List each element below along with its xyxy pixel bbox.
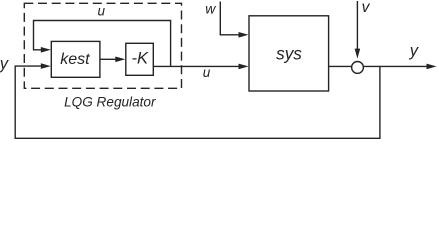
wire kest to -K	[100, 58, 118, 60]
summing junction	[352, 62, 364, 74]
svg-text:y: y	[409, 42, 420, 60]
wire -K to sys	[153, 65, 240, 67]
block kest	[51, 41, 100, 77]
svg-text:sys: sys	[276, 44, 302, 64]
arrowhead into -K	[115, 57, 125, 63]
svg-text:LQG Regulator: LQG Regulator	[64, 94, 156, 109]
svg-text:kest: kest	[60, 51, 90, 68]
wire output y	[364, 65, 428, 67]
arrowhead u into kest	[41, 47, 51, 53]
wire sys to sum	[329, 65, 352, 67]
wire u loop top	[34, 21, 171, 67]
arrowhead output y	[427, 64, 437, 70]
arrowhead w into sys	[239, 32, 249, 38]
block -K	[126, 43, 154, 75]
svg-text:u: u	[97, 4, 105, 19]
svg-text:u: u	[203, 65, 211, 80]
wire v input	[356, 1, 358, 50]
block sys	[249, 16, 329, 91]
wire w input	[220, 2, 240, 35]
arrowhead y into kest	[41, 63, 51, 69]
svg-text:w: w	[205, 1, 216, 17]
arrowhead v into sum	[355, 49, 361, 59]
wire feedback loop y	[15, 66, 380, 138]
arrowhead u into sys	[239, 64, 249, 70]
svg-text:-K: -K	[132, 49, 149, 67]
svg-text:v: v	[362, 0, 371, 16]
dashed box LQG Regulator	[24, 3, 181, 88]
svg-text:y: y	[0, 55, 10, 73]
